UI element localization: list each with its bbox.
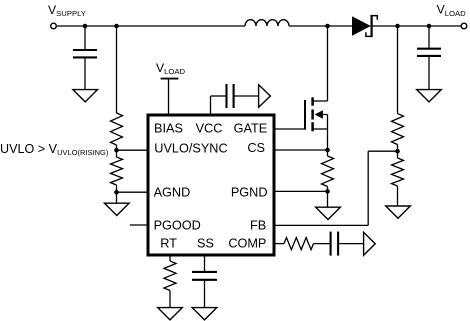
- svg-text:VCC: VCC: [196, 121, 223, 135]
- svg-text:AGND: AGND: [154, 185, 191, 199]
- svg-text:VLOAD: VLOAD: [156, 61, 186, 76]
- svg-text:FB: FB: [250, 218, 266, 232]
- svg-text:VLOAD: VLOAD: [437, 3, 467, 18]
- svg-text:GATE: GATE: [234, 121, 268, 135]
- svg-text:COMP: COMP: [228, 237, 266, 251]
- svg-text:VSUPPLY: VSUPPLY: [48, 3, 86, 18]
- svg-text:UVLO/SYNC: UVLO/SYNC: [154, 141, 227, 155]
- svg-text:CS: CS: [247, 141, 265, 155]
- svg-text:UVLO > VUVLO(RISING): UVLO > VUVLO(RISING): [0, 142, 109, 157]
- svg-text:PGOOD: PGOOD: [154, 218, 201, 232]
- svg-text:RT: RT: [160, 237, 177, 251]
- svg-text:BIAS: BIAS: [154, 121, 183, 135]
- svg-text:PGND: PGND: [231, 185, 268, 199]
- svg-text:SS: SS: [197, 237, 214, 251]
